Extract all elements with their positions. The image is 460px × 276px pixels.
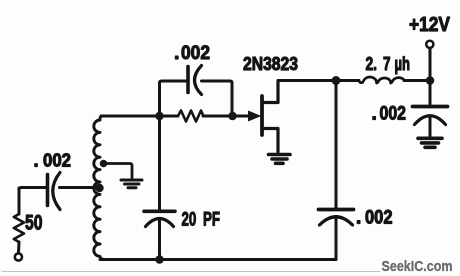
svg-text:7: 7 <box>383 54 391 74</box>
wire +12V lead down from terminal <box>429 49 432 81</box>
svg-text:.: . <box>174 42 179 64</box>
scan artifact line at bottom <box>2 271 380 273</box>
wire from tap 1 to small ground <box>104 164 133 178</box>
capacitor C2 feedback loop right vertical wire <box>202 81 233 116</box>
svg-text:002: 002 <box>181 42 210 64</box>
svg-text:002: 002 <box>43 150 71 171</box>
node coil tap 2 dot (input) <box>95 184 103 192</box>
svg-text:002: 002 <box>365 208 393 229</box>
capacitor C4 .002 tank: curved plate <box>320 217 353 225</box>
wire input line from terminal corner to coil <box>19 188 100 191</box>
transistor Q1 2N3823 gate arrow <box>236 115 250 118</box>
capacitor C2 .002 feedback: straight plate <box>186 67 190 93</box>
capacitor C4 .002 tank: top plate <box>319 208 354 212</box>
terminal +12V circle <box>426 41 433 48</box>
node A junction dot (gate line / feedback / 20PF) <box>155 112 164 121</box>
svg-text:002: 002 <box>380 103 407 125</box>
wire gate line from coil top to FET gate <box>101 115 252 118</box>
inductor L2 2.7uh choke <box>359 77 405 83</box>
transistor Q1 source stub and lead down <box>262 129 278 153</box>
capacitor C3 20PF: curved plate <box>146 219 174 227</box>
transistor Q1 channel bar <box>260 96 264 135</box>
node bottom rail junction dot (20PF / rail) <box>155 255 164 264</box>
svg-text:2.: 2. <box>366 54 378 74</box>
svg-text:.: . <box>372 104 377 125</box>
node D junction dot (rail / +12V / bypass cap) <box>426 76 435 85</box>
svg-text:20: 20 <box>182 210 197 231</box>
terminal input circle <box>15 253 22 260</box>
wire bypass cap lead from node D <box>429 81 432 105</box>
resistor R1 (gate zigzag) <box>178 111 204 122</box>
capacitor C5 .002 bypass: curved plate <box>415 116 446 125</box>
capacitor C5 .002 bypass: top plate <box>413 105 448 109</box>
svg-text:PF: PF <box>203 210 220 231</box>
svg-text:.: . <box>356 208 361 229</box>
wire 20PF branch vertical from node A <box>158 116 161 209</box>
wire bottom rail <box>100 258 336 261</box>
resistor R2 50 ohm (vertical zigzag) <box>14 214 24 242</box>
transistor Q1 drain stub and lead up to rail <box>262 81 278 103</box>
node B junction dot (resistor / feedback right) <box>228 112 237 121</box>
svg-text:2N3823: 2N3823 <box>243 53 298 74</box>
inductor L1 transformer winding (vertical coil) <box>94 116 105 260</box>
wire tank cap lead down to bottom rail <box>335 219 338 260</box>
node C junction dot (rail / tank branch) <box>332 76 341 85</box>
wire bypass cap lead to ground <box>429 117 432 136</box>
ground at coil tap <box>121 180 142 188</box>
capacitor C1 .002 input: straight plate <box>46 175 50 206</box>
wire tank branch vertical from node C <box>335 81 338 208</box>
capacitor C1 .002 input: curved plate <box>53 173 60 210</box>
capacitor C2 feedback loop left vertical wire <box>160 81 187 116</box>
svg-text:+12V: +12V <box>409 13 450 36</box>
capacitor C3 20PF: top plate <box>144 210 175 214</box>
capacitor C2 .002 feedback: curved plate <box>195 66 202 95</box>
ground under bypass cap <box>418 138 442 147</box>
svg-text:µh: µh <box>395 54 411 74</box>
svg-text:50: 50 <box>25 212 43 235</box>
wire 20PF lead down to rail <box>158 221 161 260</box>
wire input down lead <box>18 188 21 214</box>
svg-text:.: . <box>34 150 39 171</box>
ground under Q1 source <box>269 155 291 164</box>
wire resistor to input terminal <box>17 242 21 253</box>
wire top rail from drain to +12V node <box>278 79 430 82</box>
svg-text:SeekIC.com: SeekIC.com <box>382 259 453 275</box>
node coil tap 1 dot <box>100 160 108 168</box>
